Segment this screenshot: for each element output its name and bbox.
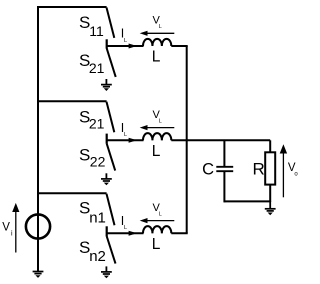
wire output bus [186,46,188,233]
svg-text:L: L [152,49,161,66]
svg-text:22: 22 [90,153,106,169]
switch S21 blade (cell1) [107,48,116,77]
current arrow IL cell2 [129,138,137,143]
wire inductor2 to load [171,139,270,141]
wire cell1 top [37,6,107,8]
resistor R [265,140,275,202]
wire cell2 to inductor [107,139,144,141]
svg-text:L: L [124,38,127,44]
capacitor C [216,140,233,202]
switch S11 blade [107,8,115,38]
svg-text:L: L [159,119,162,125]
current arrow IL cell3 [129,231,137,236]
svg-text:L: L [124,132,127,138]
svg-text:21: 21 [89,116,105,132]
wire cell2 top [37,100,107,102]
node pole cell3 [106,226,108,236]
svg-text:R: R [253,159,265,178]
ground source [33,272,44,278]
svg-text:L: L [152,236,161,253]
wire load bottom [224,200,270,202]
switch Sn1 blade [107,194,115,226]
wire cell3 to inductor [107,232,144,234]
svg-text:L: L [124,225,127,231]
node pole cell1 [106,39,108,48]
svg-text:n1: n1 [89,209,106,226]
switch S21 blade (cell2) [107,102,115,132]
switch S22 blade [107,144,116,171]
arrow VL cell1 [140,31,175,36]
svg-text:C: C [202,160,214,178]
svg-text:11: 11 [89,23,104,39]
wire cell1 to inductor [107,45,144,47]
wire cell3 top [37,192,107,194]
arrow VL cell3 [140,218,175,223]
svg-text:S: S [79,146,90,165]
inductor L1 [143,39,171,46]
inductor L2 [143,133,171,140]
svg-text:L: L [159,24,162,30]
switch Sn2 blade [107,236,116,263]
svg-text:21: 21 [89,60,105,76]
voltage source Vi [26,214,50,238]
node pole cell2 [106,134,108,144]
ground cell1 [101,79,112,91]
current arrow IL cell1 [129,44,137,49]
arrow Vi [12,203,19,253]
ground cell2 [101,173,112,185]
svg-text:n2: n2 [89,248,106,265]
ground load [265,201,276,215]
wire inductor3 to output bus [171,232,187,234]
inductor L3 [143,226,171,233]
arrow Vo [280,144,287,197]
wire inductor1 to output bus [171,45,187,47]
svg-text:L: L [159,212,162,218]
arrow VL cell2 [140,125,175,130]
svg-text:L: L [152,143,161,160]
ground cell3 [101,266,112,278]
svg-text:V: V [2,221,10,233]
wire input bus [37,7,39,272]
